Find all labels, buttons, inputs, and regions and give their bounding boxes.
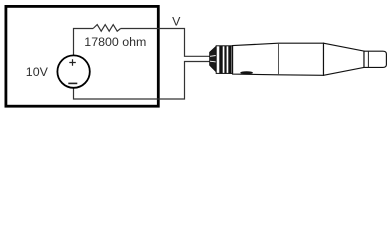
collar background: [216, 46, 232, 74]
wire lower: probe lower lead down and back to source bottom: [74, 62, 210, 100]
collar band 3: [228, 46, 231, 74]
wire top: source top to resistor: [74, 29, 94, 56]
cone white streaks: [210, 56, 216, 62]
svg-text:10V: 10V: [26, 65, 49, 79]
taper nose: [324, 43, 365, 75]
resistor R zigzag: [93, 25, 121, 32]
collar band 1: [219, 46, 222, 74]
plus sign: [69, 59, 76, 66]
body ellipse mark: [240, 71, 253, 74]
minus sign: [68, 82, 77, 84]
probe body: [233, 43, 324, 75]
wire: resistor to V corner and down to probe upper lead: [121, 29, 210, 57]
tip cap: [364, 51, 386, 67]
svg-text:17800 ohm: 17800 ohm: [84, 35, 146, 49]
voltage source V1 circle: [57, 55, 89, 87]
tip cap seam: [367, 51, 369, 67]
enclosure box: [6, 6, 158, 106]
svg-text:V: V: [172, 14, 181, 28]
probe cone collet: [210, 46, 217, 72]
collar band 2: [224, 46, 226, 74]
body seam: [278, 43, 280, 75]
